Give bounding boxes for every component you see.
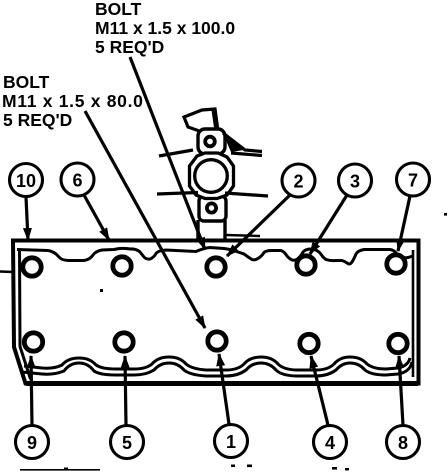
stray tick bottom right [332,467,337,470]
stray dot bottom center [231,465,235,468]
leader line from left text to bottom-middle bolt hole [85,111,205,328]
right wing lower line [225,193,268,196]
callout circle 3 [339,164,372,197]
stray tick bottom left [64,468,68,471]
svg-text:5 REQ'D: 5 REQ'D [95,37,164,57]
callout circle 7 [397,163,430,196]
label: BOLT M11 x 1.5 x 80.0 (left text block) [2,72,144,130]
bolt hole top row 5 (pos 7) [387,255,405,273]
cylinder head right inner edge line [412,250,415,377]
bolt hole top row 3 (pos 2) [207,258,225,276]
thermostat cap inner edge line [213,110,216,131]
leader from circle 4 [311,356,328,425]
thermostat housing bottom bolt hole [207,203,216,212]
callout circle 6 [61,163,94,196]
thermostat housing big ring inner circle [195,160,228,193]
leader line from top text to top-middle bolt hole [130,57,205,250]
leader from circle 6 [84,195,109,240]
bolt hole bottom row 2 (pos 5) [115,333,133,351]
stray tick bottom middle [247,465,252,468]
stray dot left of head [100,289,103,292]
svg-text:M11 x 1.5 x 100.0: M11 x 1.5 x 100.0 [95,18,235,38]
bolt hole bottom row 1 (pos 9) [24,333,42,351]
leader from circle 7 [398,196,410,251]
bottom gasket wavy line (lower) [22,362,412,376]
stray tick bottom right 2 [345,468,349,470]
svg-text:10: 10 [16,171,36,191]
svg-text:1: 1 [226,432,236,452]
bolt hole top row 2 (pos 6) [113,257,131,275]
svg-text:2: 2 [293,172,303,192]
svg-text:8: 8 [398,433,408,453]
svg-text:4: 4 [325,433,335,453]
stray tick right edge [444,213,447,216]
left wing lower line [157,193,198,195]
bolt hole bottom row 3 (pos 1) [208,332,226,350]
cylinder head outer outline [13,241,419,384]
thermostat housing big ring outer octagon [190,153,234,199]
callout circle 2 [282,164,315,197]
thermostat housing bottom tab [199,196,226,221]
callout circle 8 [387,426,420,459]
thermostat housing top bolt hole [205,137,215,147]
bolt hole top row 4 (pos 3) [297,256,315,274]
callout circle 1 [215,425,248,458]
svg-text:9: 9 [27,433,37,453]
small line at left margin [0,270,13,273]
svg-text:7: 7 [408,171,418,191]
callout circle 9 [16,426,49,459]
thermostat housing neck [198,220,225,241]
bolt hole top row 1 (pos 10) [23,258,41,276]
right spout wedge fill [224,136,244,152]
leader from circle 10 [26,197,28,240]
svg-text:6: 6 [72,171,82,191]
leader from circle 2 [227,195,290,256]
bolt hole bottom row 4 (pos 4) [300,334,318,352]
bottom edge overdraw (thicker) [26,381,418,386]
cylinder head left inner edge line [20,250,31,379]
right spout lower line [231,153,262,156]
callout circle 4 [314,426,347,459]
stray thin line bottom left [20,469,100,471]
leader from circle 1 [219,354,229,424]
leader from circle 9 [31,356,32,425]
callout circle 10 [10,164,43,197]
svg-text:5: 5 [122,433,132,453]
svg-text:5 REQ'D: 5 REQ'D [3,110,72,130]
thermostat housing top tab [198,129,225,154]
bolt hole bottom row 5 (pos 8) [389,334,407,352]
label: BOLT M11 x 1.5 x 100.0 (top text block) [95,0,235,57]
svg-text:BOLT: BOLT [3,72,50,92]
leader from circle 3 [310,195,347,254]
svg-text:BOLT: BOLT [95,0,142,19]
top gasket wavy line [17,248,413,265]
callout circle 5 [111,426,144,459]
svg-text:3: 3 [350,172,360,192]
thermostat cap polygon [184,109,218,133]
right short line above head edge [226,235,260,236]
right spout upper line [223,133,262,152]
svg-text:M11 x 1.5 x 80.0: M11 x 1.5 x 80.0 [2,91,144,111]
left wing upper line [159,150,193,156]
leader from circle 8 [399,356,403,425]
leader from circle 5 [125,356,126,425]
bottom gasket wavy line (upper) [24,357,410,370]
